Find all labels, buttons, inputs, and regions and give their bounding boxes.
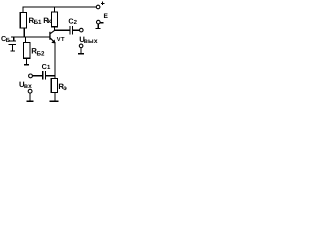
capacitor C1 left plate [42,71,43,80]
svg-text:E: E [104,13,109,20]
terminal output lower circle [79,44,83,48]
resistor Rk body [51,12,57,27]
resistor R3 body [51,78,57,92]
wire R3 bottom lead [54,93,55,101]
svg-text:1: 1 [47,64,51,71]
terminal supply plus circle [96,5,100,9]
resistor RB2 body [24,43,30,59]
capacitor C2 left plate [69,26,70,34]
wire stub above lower output terminal [81,48,82,54]
capacitor CB top stub [13,36,14,40]
wire C2 to output terminal [73,30,80,31]
wire C1 to emitter junction [46,75,54,76]
wire RB1 top lead [22,7,23,13]
wire top supply rail [22,7,96,8]
wire RB1 bottom lead [24,28,25,37]
terminal input upper circle [29,74,33,78]
ground bar under RB2 [24,64,29,65]
terminal output upper circle [80,28,84,32]
svg-text:вх: вх [24,83,32,90]
transistor VT base bar [49,32,50,40]
label plus sign [101,3,104,4]
terminal supply minus circle [97,20,101,24]
svg-text:Б: Б [6,37,11,44]
wire base bus [11,36,50,37]
ground bar under CB [10,50,15,51]
capacitor CB top plate [9,40,17,41]
transistor VT emitter diagonal [50,38,55,43]
capacitor C2 right plate [72,26,73,34]
terminal input lower circle [28,89,32,93]
svg-text:э: э [63,85,67,92]
wire Rk bottom lead [54,27,55,31]
ground bar under R3 [50,100,59,102]
svg-text:2: 2 [74,19,78,26]
capacitor CB bottom plate [9,44,16,45]
transistor VT emitter arrowhead [51,40,55,44]
resistor RB1 body [20,13,26,29]
wire stub above lower input terminal [30,93,31,101]
capacitor C1 right plate [45,71,46,80]
wire input C1 line [32,75,42,76]
wire RB2 top lead [25,37,26,43]
svg-text:VT: VT [57,37,65,43]
svg-text:вых: вых [84,38,98,45]
wire collector to C2 [54,30,69,31]
svg-text:Б2: Б2 [37,50,45,57]
capacitor CB bottom stub [12,45,13,51]
transistor VT collector diagonal [50,30,55,33]
wire stub under minus supply terminal [98,24,99,28]
wire RB2 bottom lead [26,58,27,64]
svg-text:Б1: Б1 [34,19,42,26]
wire Rk top lead [54,7,55,13]
label minus sign [100,22,103,23]
wire emitter down to R3 [54,42,55,79]
